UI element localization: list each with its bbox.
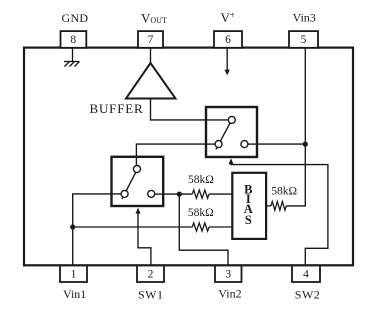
- svg-text:SW2: SW2: [295, 287, 321, 301]
- svg-text:4: 4: [303, 269, 309, 281]
- svg-text:S: S: [245, 213, 252, 227]
- svg-text:58kΩ: 58kΩ: [188, 207, 214, 219]
- svg-text:5: 5: [301, 34, 307, 46]
- svg-text:7: 7: [148, 34, 154, 46]
- svg-text:2: 2: [148, 269, 154, 281]
- svg-text:1: 1: [71, 269, 77, 281]
- svg-text:8: 8: [70, 34, 76, 46]
- svg-text:SW1: SW1: [138, 287, 164, 301]
- svg-text:Vin2: Vin2: [218, 287, 241, 301]
- svg-text:GND: GND: [62, 11, 89, 25]
- svg-text:6: 6: [225, 34, 231, 46]
- svg-text:Vin1: Vin1: [63, 287, 86, 301]
- svg-text:58kΩ: 58kΩ: [271, 186, 297, 198]
- svg-text:58kΩ: 58kΩ: [188, 174, 214, 186]
- svg-text:BUFFER: BUFFER: [90, 101, 144, 116]
- svg-text:3: 3: [225, 269, 231, 281]
- svg-text:Vin3: Vin3: [293, 10, 316, 24]
